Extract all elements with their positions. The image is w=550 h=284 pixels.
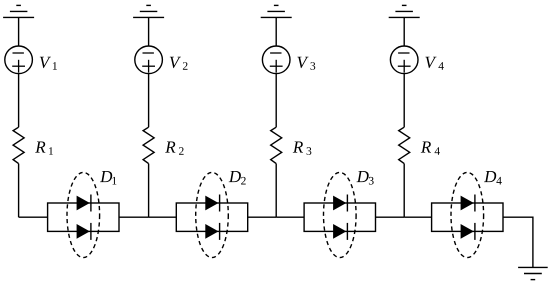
label D1: [100, 171, 116, 185]
voltage source V2: [135, 46, 163, 74]
wire: V1 to R1: [18, 74, 20, 128]
diode D3a (top): [334, 195, 348, 212]
dashed ellipse around D3: [324, 172, 357, 257]
wire: R2 down to bus node: [148, 164, 150, 218]
diode D4a (top): [461, 195, 475, 212]
wire: R1 down to bus node: [18, 164, 20, 218]
label V3: [297, 57, 315, 70]
diode D1a (top): [77, 195, 91, 212]
voltage source V3: [262, 46, 290, 74]
wire: top ground to source V1: [18, 17, 20, 46]
label R2: [165, 141, 183, 154]
wire: V4 to R4: [403, 74, 405, 128]
label D4: [484, 171, 502, 185]
wire: node to D2 module input: [149, 216, 177, 218]
label V1: [40, 57, 57, 70]
wire: top ground to source V3: [275, 17, 277, 46]
label R4: [421, 141, 440, 154]
resistor R4: [399, 127, 410, 163]
wire: top ground to source V2: [148, 17, 150, 46]
label V2: [170, 57, 188, 70]
label R3: [293, 141, 312, 154]
dashed ellipse around D2: [196, 172, 229, 257]
ground (top of branch 3): [261, 5, 292, 17]
wire: D1 output to node of branch 3: [119, 216, 149, 218]
voltage source V1: [5, 46, 33, 74]
label V4: [425, 57, 443, 70]
diode D2b (bottom): [206, 223, 220, 240]
diode D4b (bottom): [461, 223, 475, 240]
dashed ellipse around D1: [67, 172, 100, 257]
diode D1b (bottom): [77, 223, 91, 240]
diode D3b (bottom): [334, 223, 348, 240]
wire: node to D3 module input: [276, 216, 304, 218]
wire: D3 output to node of branch 5: [376, 216, 405, 218]
label D3: [357, 171, 374, 185]
wire: R4 down to bus node: [403, 164, 405, 218]
wire: V2 to R2: [148, 74, 150, 128]
diode module D2 box: [176, 203, 247, 231]
wire: node to D1 module input: [19, 216, 48, 218]
resistor R2: [143, 127, 154, 163]
diode D2a (top): [206, 195, 220, 212]
dashed ellipse around D4: [451, 172, 484, 257]
label D2: [229, 171, 246, 185]
ground (bottom right): [518, 267, 548, 279]
wire: node to D4 module input: [404, 216, 431, 218]
diode module D1 box: [48, 203, 119, 231]
voltage source V4: [390, 46, 418, 74]
ground (top of branch 1): [3, 5, 34, 17]
resistor R1: [13, 127, 24, 163]
ground (top of branch 4): [389, 5, 420, 17]
wire: R3 down to bus node: [275, 164, 277, 218]
diode module D4 box: [432, 203, 503, 231]
resistor R3: [271, 127, 282, 163]
ground (top of branch 2): [133, 5, 164, 17]
wire: D2 output to node of branch 4: [248, 216, 277, 218]
wire: top ground to source V4: [403, 17, 405, 46]
wire: D4 output right and down to bottom ground: [503, 217, 533, 267]
diode module D3 box: [304, 203, 375, 231]
label R1: [35, 141, 53, 154]
wire: V3 to R3: [275, 74, 277, 128]
